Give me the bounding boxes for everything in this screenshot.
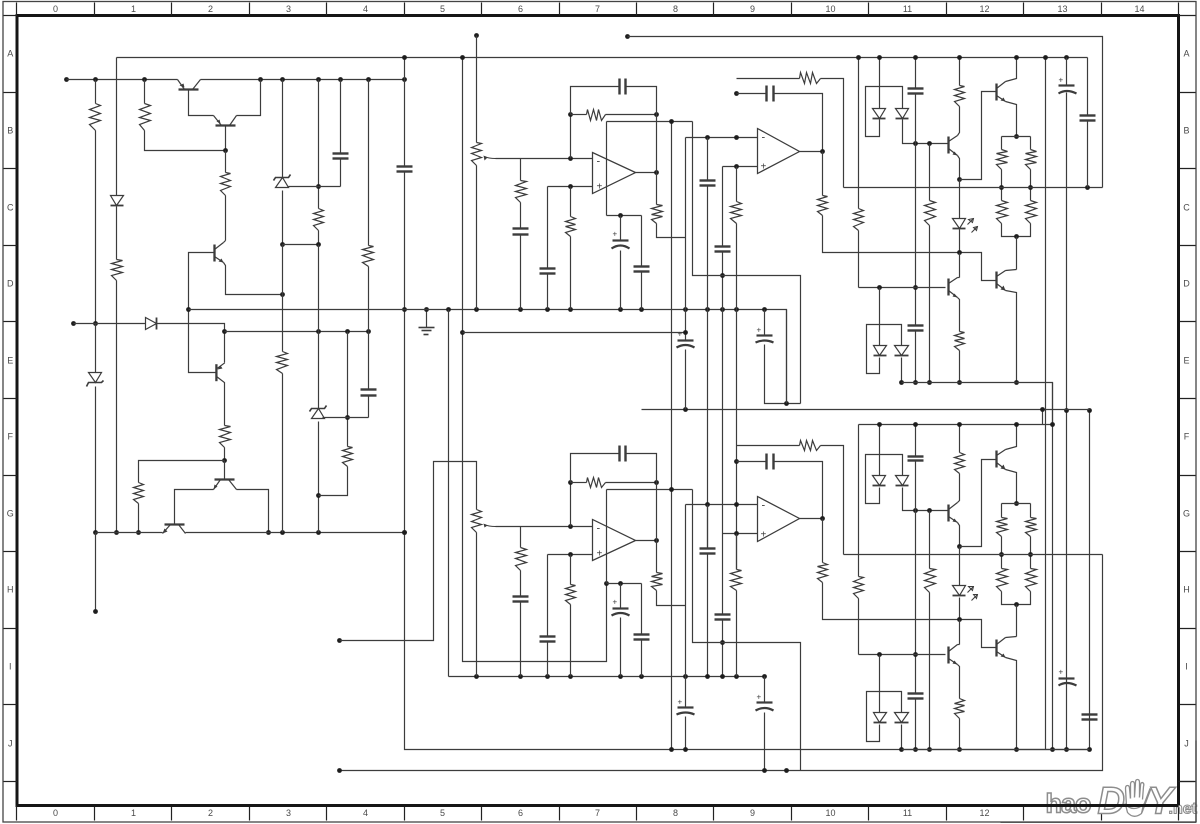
svg-text:G: G <box>7 509 14 519</box>
junction dot <box>618 581 623 586</box>
wire <box>224 448 226 461</box>
resistor RA12 <box>1026 201 1037 224</box>
junction dot <box>734 502 739 507</box>
wire <box>282 245 284 352</box>
wire <box>476 533 478 677</box>
wire inter-channel link <box>642 409 1090 411</box>
resistor RB8 <box>955 453 965 474</box>
junction dot <box>1014 501 1019 506</box>
svg-text:+: + <box>678 330 683 339</box>
wire main rail left segment <box>67 79 177 81</box>
wire U2 output <box>800 151 823 153</box>
junction dot <box>1014 234 1019 239</box>
junction dot <box>114 530 119 535</box>
junction dot <box>618 674 623 679</box>
wire <box>821 446 844 555</box>
wire <box>821 79 844 188</box>
wire output node <box>844 187 1103 189</box>
wire <box>879 58 881 109</box>
junction dot <box>762 768 767 773</box>
junction dot <box>705 674 710 679</box>
wire <box>74 323 146 325</box>
wire <box>1001 137 1003 150</box>
wire <box>737 445 800 447</box>
svg-text:D: D <box>1098 781 1125 823</box>
junction dot <box>639 674 644 679</box>
svg-text:I: I <box>9 662 12 672</box>
junction dot <box>568 156 573 161</box>
resistor RB3 feedback <box>587 478 606 488</box>
wire <box>138 504 140 533</box>
svg-text:8: 8 <box>673 808 678 818</box>
wire <box>225 126 227 151</box>
diode D2 <box>146 318 157 330</box>
capacitor CB10 <box>908 457 924 461</box>
junction dot <box>877 285 882 290</box>
wire <box>607 489 693 491</box>
wire <box>318 245 320 332</box>
junction dot <box>927 747 932 752</box>
wire <box>520 571 522 597</box>
wire <box>901 358 903 383</box>
svg-text:4: 4 <box>363 808 368 818</box>
junction dot <box>568 184 573 189</box>
op-amp UA2 <box>758 129 800 174</box>
wire <box>368 396 370 418</box>
junction dot <box>899 747 904 752</box>
wire <box>915 58 917 89</box>
wire <box>520 527 522 548</box>
svg-text:.net: .net <box>1169 801 1198 818</box>
wire <box>858 599 860 655</box>
resistor RA7 <box>925 201 936 226</box>
svg-text:-: - <box>762 500 766 512</box>
wire <box>786 310 788 404</box>
wire lower rail <box>859 287 946 289</box>
wire <box>958 665 960 699</box>
wire <box>657 591 686 606</box>
junction dot <box>316 242 321 247</box>
capacitor CB5 <box>715 615 731 620</box>
junction dot <box>222 329 227 334</box>
junction dot <box>720 674 725 679</box>
wire main rail (bottom channel) <box>859 424 1053 426</box>
resistor RB12 <box>1026 569 1037 592</box>
wire inverting input <box>521 526 593 528</box>
svg-text:hao: hao <box>1046 789 1092 819</box>
junction dot <box>568 674 573 679</box>
capacitor CB8 <box>634 635 650 640</box>
svg-text:9: 9 <box>750 808 755 818</box>
svg-text:J: J <box>1184 739 1189 749</box>
junction dot <box>683 330 688 335</box>
capacitor CB13 <box>1082 715 1098 720</box>
wire U2 non-inverting input <box>723 533 758 535</box>
svg-text:+: + <box>613 598 618 607</box>
wire <box>547 555 549 637</box>
wire <box>323 417 369 419</box>
junction dot <box>460 330 465 335</box>
junction dot <box>402 530 407 535</box>
wire <box>606 490 608 584</box>
capacitor CA5 <box>715 247 731 252</box>
wire Q3 base / Q4 base <box>189 253 217 373</box>
junction dot <box>913 141 918 146</box>
terminal dot input A <box>474 33 479 38</box>
diode DB2 <box>896 476 909 486</box>
wire <box>95 131 97 324</box>
wire <box>641 584 643 635</box>
junction dot <box>474 307 479 312</box>
wire <box>1006 102 1017 137</box>
wire Q3 emitter <box>224 263 283 295</box>
junction dot <box>784 768 789 773</box>
wire lower bus <box>902 383 1053 425</box>
wire wiper <box>496 526 521 528</box>
op-amp UA1 <box>593 153 636 194</box>
wire <box>774 94 823 152</box>
capacitor CA4 <box>700 181 716 186</box>
svg-text:4: 4 <box>363 4 368 14</box>
junction dot <box>683 407 688 412</box>
wire bias bus left <box>96 532 163 534</box>
junction dot <box>1050 747 1055 752</box>
resistor RB5 <box>731 570 742 591</box>
wire upper bus <box>117 57 1088 59</box>
resistor RB2 <box>566 585 576 605</box>
wire <box>656 483 658 541</box>
wire <box>737 78 800 80</box>
wire <box>606 122 608 216</box>
junction dot <box>734 459 739 464</box>
polarized capacitor CA7 <box>612 230 630 249</box>
wire <box>620 251 622 310</box>
wire <box>404 58 406 167</box>
wire <box>722 643 724 677</box>
wire wiper <box>496 158 521 160</box>
wire <box>707 138 709 181</box>
wire <box>693 122 723 276</box>
capacitor CA6 feedback <box>767 86 774 102</box>
junction dot <box>654 112 659 117</box>
frame overlay at watermark <box>17 804 1179 807</box>
terminal dot <box>337 768 342 773</box>
junction dot <box>820 516 825 521</box>
ground <box>419 310 435 335</box>
svg-text:H: H <box>7 585 14 595</box>
junction dot <box>1028 185 1033 190</box>
wire driver node <box>823 216 997 281</box>
wire <box>958 644 960 646</box>
LED DB3 <box>953 586 978 601</box>
junction dot <box>568 524 573 529</box>
transistor Q1 (PNP) <box>178 80 201 90</box>
wire diode box loop <box>867 692 902 742</box>
svg-text:E: E <box>1183 356 1189 366</box>
wire <box>318 80 320 209</box>
wire <box>858 58 860 209</box>
wire Q4 emitter <box>224 332 226 363</box>
resistor RB15 <box>854 577 864 599</box>
wire <box>959 620 961 645</box>
svg-text:2: 2 <box>208 4 213 14</box>
junction dot <box>877 422 882 427</box>
junction dot <box>1043 55 1048 60</box>
wire <box>1002 592 1031 605</box>
wire <box>1030 537 1032 569</box>
wire main rail right segment <box>201 79 405 81</box>
transistor Q2 (PNP) <box>214 116 237 126</box>
junction dot <box>705 135 710 140</box>
wire <box>723 643 801 771</box>
wire <box>958 474 960 503</box>
wire <box>607 583 642 585</box>
junction dot <box>366 77 371 82</box>
wire <box>1006 658 1017 750</box>
junction dot <box>1064 747 1069 752</box>
svg-text:0: 0 <box>53 4 58 14</box>
junction dot <box>338 77 343 82</box>
wire <box>1006 425 1017 450</box>
junction dot <box>913 508 918 513</box>
wire Q1 base to Q2 <box>189 90 214 116</box>
wire <box>707 505 709 549</box>
polarized capacitor CB14 <box>1059 668 1077 686</box>
wire output node <box>844 554 1103 556</box>
wire bus G <box>1089 411 1091 750</box>
wire <box>915 94 917 326</box>
wire <box>915 331 917 383</box>
junction dot <box>927 380 932 385</box>
wire supply return bus <box>405 172 1090 750</box>
resistor RA8 <box>955 86 965 107</box>
wire inverting input <box>521 158 593 160</box>
polarized capacitor CA9 <box>677 330 695 348</box>
wire <box>319 467 348 496</box>
resistor R3 <box>221 173 231 196</box>
wire <box>116 58 118 196</box>
junction dot <box>913 747 918 752</box>
junction dot <box>720 307 725 312</box>
transistor QB2 (NPN) <box>997 450 1006 470</box>
resistor RA1 <box>516 181 527 203</box>
junction dot <box>402 77 407 82</box>
junction dot <box>856 55 861 60</box>
wire <box>764 310 766 336</box>
wire <box>685 350 687 410</box>
resistor RB14 <box>818 563 828 583</box>
junction dot <box>957 250 962 255</box>
capacitor CB2 <box>540 637 556 642</box>
junction dot <box>316 493 321 498</box>
junction dot <box>1085 185 1090 190</box>
wire <box>958 298 960 332</box>
svg-text:+: + <box>761 162 767 173</box>
resistor RA6 feedback <box>800 73 821 84</box>
terminal dot V+ rail <box>64 77 69 82</box>
junction dot <box>1014 602 1019 607</box>
resistor RB6 feedback <box>800 441 821 451</box>
wire <box>915 699 917 750</box>
junction dot <box>957 617 962 622</box>
wire <box>116 207 118 260</box>
wire <box>958 277 960 279</box>
svg-text:+: + <box>761 530 767 541</box>
svg-text:-: - <box>597 523 601 535</box>
svg-text:5: 5 <box>440 4 445 14</box>
wire <box>1030 504 1032 518</box>
wire diode box loop <box>866 87 903 137</box>
transistor QA3 (PNP) <box>949 278 958 298</box>
wire <box>606 482 657 484</box>
resistor RA2 <box>566 217 576 237</box>
wire <box>774 462 823 519</box>
wire <box>641 216 643 267</box>
junction dot <box>316 530 321 535</box>
wire <box>1066 58 1068 86</box>
trimmer VRA wiper arrow <box>485 157 496 159</box>
svg-text:+: + <box>757 326 762 335</box>
capacitor CA3 feedback <box>620 79 626 95</box>
wire <box>340 80 342 154</box>
wire <box>476 166 478 310</box>
wire <box>960 92 997 180</box>
resistor RB7 <box>925 569 936 593</box>
wire <box>656 173 658 205</box>
junction dot <box>999 185 1004 190</box>
wire <box>959 180 961 219</box>
wire <box>606 114 657 116</box>
junction dot <box>654 170 659 175</box>
wire <box>722 252 724 276</box>
zener diode Z3 <box>310 406 327 419</box>
wire mid bus (bottom channel) <box>449 676 765 678</box>
svg-text:A: A <box>7 49 13 59</box>
svg-text:F: F <box>7 432 13 442</box>
junction dot <box>1028 552 1033 557</box>
junction dot <box>568 552 573 557</box>
wire U2 output <box>800 518 823 520</box>
junction dot <box>720 273 725 278</box>
polarized capacitor CB12 <box>756 693 774 711</box>
wire <box>723 276 801 404</box>
wire <box>1030 137 1032 150</box>
wire U2 non-inverting input <box>723 166 758 168</box>
junction dot <box>957 747 962 752</box>
svg-text:C: C <box>7 203 14 213</box>
junction dot <box>683 674 688 679</box>
wire <box>722 534 724 615</box>
diode DA1 <box>873 109 886 119</box>
wire <box>929 593 931 750</box>
wire <box>641 640 643 677</box>
wire output loop (top) <box>628 37 1103 188</box>
transistor Q3 (NPN) <box>215 243 224 263</box>
wire <box>289 186 341 188</box>
trimmer VRA <box>472 143 482 166</box>
svg-text:9: 9 <box>750 4 755 14</box>
wire bus B <box>707 186 709 549</box>
resistor RA5 <box>731 202 742 224</box>
wire <box>656 115 658 173</box>
wire <box>929 226 931 383</box>
wire <box>607 215 642 217</box>
wire <box>620 618 622 677</box>
junction dot <box>186 307 191 312</box>
wire <box>685 138 687 341</box>
wire <box>626 454 657 483</box>
wire bus E <box>1045 58 1047 750</box>
svg-text:+: + <box>678 698 683 707</box>
wire <box>116 281 118 533</box>
capacitor CA2 <box>540 269 556 274</box>
junction dot <box>734 164 739 169</box>
wire <box>657 224 686 238</box>
wire <box>1006 470 1017 504</box>
wire input A <box>476 36 478 143</box>
resistor R2 <box>140 104 151 131</box>
junction dot <box>899 380 904 385</box>
wire <box>1006 637 1017 638</box>
junction dot <box>93 530 98 535</box>
resistor RA4 <box>652 205 663 224</box>
svg-text:3: 3 <box>286 4 291 14</box>
resistor RB9 <box>997 518 1008 537</box>
wire <box>1087 58 1089 116</box>
junction dot <box>568 307 573 312</box>
wire <box>1016 605 1018 637</box>
zener diode Z1 <box>87 373 104 387</box>
svg-text:6: 6 <box>518 808 523 818</box>
wire <box>736 534 738 570</box>
junction dot <box>913 380 918 385</box>
wire <box>318 332 320 409</box>
svg-text:10: 10 <box>825 808 835 818</box>
wire <box>722 620 724 643</box>
wire <box>368 267 370 389</box>
diode DB4 <box>874 713 887 723</box>
svg-text:F: F <box>1184 432 1190 442</box>
wire <box>1006 270 1017 271</box>
wire <box>626 87 657 115</box>
wire <box>959 598 961 620</box>
svg-text:G: G <box>1183 509 1190 519</box>
wire <box>959 425 961 453</box>
junction dot <box>669 119 674 124</box>
capacitor C1 <box>333 154 349 159</box>
junction dot <box>266 530 271 535</box>
svg-text:I: I <box>1185 662 1188 672</box>
wire bus D <box>736 224 738 570</box>
junction dot <box>142 77 147 82</box>
wire <box>1001 537 1003 569</box>
diode DB5 <box>895 713 909 723</box>
wire <box>1001 504 1003 518</box>
terminal dot <box>625 34 630 39</box>
polarized capacitor CB9 <box>677 698 695 715</box>
wire <box>547 274 549 310</box>
wire <box>225 196 227 241</box>
transistor QA4 (PNP) <box>997 271 1006 291</box>
junction dot <box>316 77 321 82</box>
junction dot <box>258 77 263 82</box>
wire <box>570 187 572 217</box>
transistor QB1 (NPN) <box>949 503 958 523</box>
svg-text:10: 10 <box>825 4 835 14</box>
svg-text:8: 8 <box>673 4 678 14</box>
junction dot <box>460 55 465 60</box>
resistor RB4 <box>652 573 663 591</box>
